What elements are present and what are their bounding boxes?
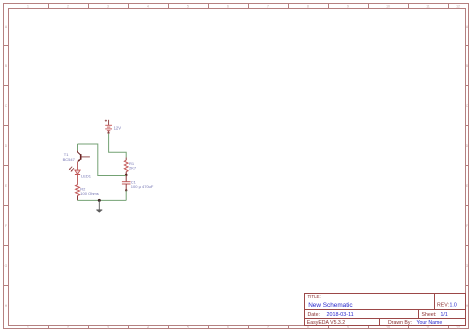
wire base net: collector top to R1/C1 junction [78, 144, 127, 176]
svg-text:8: 8 [307, 326, 309, 330]
svg-text:F: F [466, 224, 468, 228]
svg-text:11: 11 [426, 326, 430, 330]
transistor Q1 (T1 BC547) [63, 144, 90, 170]
LED arrow 2 [69, 167, 72, 170]
svg-text:LED1: LED1 [81, 174, 92, 179]
svg-text:4: 4 [147, 326, 149, 330]
svg-text:G: G [466, 264, 469, 268]
svg-text:2K7: 2K7 [129, 166, 137, 171]
LED triangle [75, 170, 80, 174]
svg-text:Your Name: Your Name [417, 320, 443, 326]
title block [305, 294, 466, 326]
svg-text:3: 3 [107, 326, 109, 330]
svg-text:100 Ohms: 100 Ohms [80, 191, 98, 196]
svg-text:1/1: 1/1 [441, 312, 448, 318]
battery plus sign [105, 120, 107, 122]
svg-text:BC547: BC547 [63, 157, 76, 162]
svg-text:6: 6 [227, 326, 229, 330]
R1 top lead [125, 157, 127, 160]
svg-text:5: 5 [187, 5, 189, 9]
resistor R2 [76, 185, 99, 201]
C1 pin dot [125, 189, 127, 191]
svg-text:Date:: Date: [308, 312, 320, 318]
LED cathode bar [75, 174, 80, 176]
svg-text:New Schematic: New Schematic [308, 302, 353, 309]
LED LED1 [69, 167, 92, 179]
resistor R1 [124, 157, 137, 175]
svg-text:12: 12 [456, 5, 460, 9]
emitter lead [77, 162, 79, 170]
frame column ticks (bottom) [49, 326, 449, 329]
battery plate short 1 [107, 126, 110, 128]
svg-text:1.0: 1.0 [450, 302, 457, 308]
R2 zigzag [76, 185, 80, 196]
C1 plate top [122, 181, 131, 183]
svg-text:Drawn By:: Drawn By: [388, 320, 412, 326]
svg-text:2: 2 [67, 326, 69, 330]
C1 plate bottom [122, 183, 131, 185]
svg-text:G: G [5, 264, 8, 268]
ground symbol [96, 200, 102, 212]
svg-text:EasyEDA V5.3.2: EasyEDA V5.3.2 [307, 320, 345, 326]
LED arrow 1 [71, 168, 74, 171]
svg-text:TITLE:: TITLE: [308, 294, 321, 299]
wire battery to R1 top [109, 134, 127, 158]
battery plate long 1 [105, 124, 112, 126]
R1 bottom lead [125, 172, 127, 176]
C1 top lead [125, 176, 127, 182]
svg-text:3: 3 [107, 5, 109, 9]
svg-text:12V: 12V [114, 126, 122, 131]
battery V1 12V [105, 120, 121, 134]
R1 zigzag [124, 160, 128, 172]
svg-text:8: 8 [307, 5, 309, 9]
svg-text:7: 7 [267, 5, 269, 9]
svg-text:9: 9 [347, 5, 349, 9]
svg-text:REV:: REV: [437, 302, 449, 308]
frame row ticks (left) [4, 46, 9, 286]
battery top stub [108, 120, 110, 125]
emitter diagonal with arrow [78, 159, 81, 161]
node ground junction [98, 199, 101, 202]
battery bottom tick [107, 132, 110, 134]
svg-text:2: 2 [67, 5, 69, 9]
svg-text:10: 10 [386, 326, 390, 330]
svg-text:100 µ 470uF: 100 µ 470uF [131, 184, 154, 189]
svg-text:11: 11 [426, 5, 430, 9]
svg-text:2018-03-11: 2018-03-11 [327, 312, 354, 318]
svg-text:12: 12 [456, 326, 460, 330]
base bar [80, 154, 82, 160]
svg-text:F: F [5, 224, 7, 228]
LED cathode to R2 lead [77, 175, 79, 185]
battery plate short 2 [107, 130, 110, 132]
svg-text:10: 10 [386, 5, 390, 9]
wire bottom rail [78, 199, 127, 201]
svg-text:1: 1 [27, 5, 29, 9]
svg-text:7: 7 [267, 326, 269, 330]
capacitor C1 [122, 176, 154, 192]
svg-text:1: 1 [27, 326, 29, 330]
collector lead [77, 144, 79, 151]
R2 bottom lead [77, 196, 79, 201]
base lead [81, 156, 90, 158]
svg-text:4: 4 [147, 5, 149, 9]
svg-text:5: 5 [187, 326, 189, 330]
node junction R1/C1 [125, 174, 128, 177]
frame column ticks (top) [49, 4, 449, 9]
battery bottom stub [108, 131, 110, 134]
C1 bottom lead [125, 184, 127, 190]
battery plate long 2 [105, 128, 112, 130]
collector diagonal [78, 152, 81, 155]
svg-text:6: 6 [227, 5, 229, 9]
svg-text:9: 9 [347, 326, 349, 330]
svg-text:Sheet:: Sheet: [422, 312, 437, 318]
wire C1 bottom to rail [125, 190, 127, 200]
frame row ticks (right) [466, 46, 469, 286]
